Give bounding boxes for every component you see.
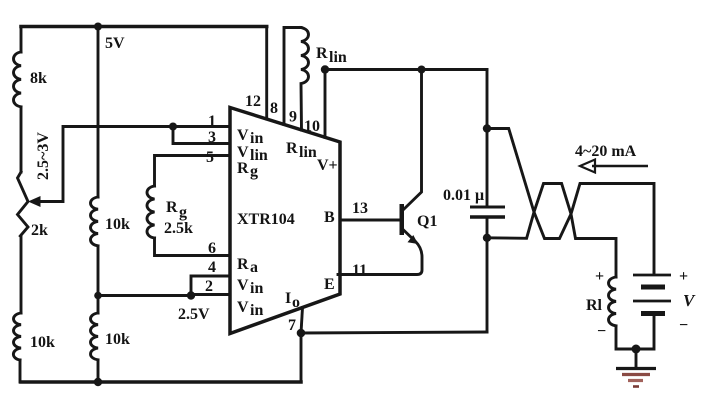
- resistor Rg 2.5k: [147, 186, 193, 238]
- wire pin 10 to Rlin node: [324, 70, 327, 138]
- svg-text:9: 9: [289, 109, 297, 126]
- pin 2 label Vin: [237, 299, 263, 319]
- node twist lower: [483, 234, 491, 242]
- arrow 4~20 mA: [575, 143, 648, 173]
- pin 6 label Ra: [237, 256, 258, 276]
- pin 3 label Vlin: [237, 144, 268, 164]
- resistor 10k middle-upper: [91, 197, 131, 246]
- svg-text:10k: 10k: [105, 331, 130, 348]
- wire top 5V rail: [21, 25, 267, 29]
- wire pin 4 branch: [191, 276, 229, 296]
- svg-text:2: 2: [205, 278, 213, 295]
- svg-text:R: R: [166, 199, 178, 216]
- wire pin 7 to right bus: [301, 332, 487, 333]
- pin 5 label Rg: [237, 160, 258, 180]
- wire pin 3 branch: [173, 127, 229, 144]
- svg-text:1: 1: [208, 113, 216, 130]
- svg-text:in: in: [250, 280, 263, 297]
- svg-text:E: E: [324, 276, 335, 293]
- wire right bus upper: [486, 70, 489, 208]
- svg-text:V: V: [237, 144, 249, 161]
- wire pin 5 to Rg: [155, 156, 230, 187]
- wire Rlin node to right bus: [325, 68, 487, 71]
- wire Rg to pin 6: [155, 238, 230, 256]
- svg-text:R: R: [237, 256, 249, 273]
- resistor coil pins 8-9: [301, 28, 309, 131]
- svg-text:lin: lin: [250, 147, 268, 164]
- wire twisted pair A: [487, 129, 654, 273]
- wire pin 7 stub: [301, 308, 303, 334]
- node pin1 junction: [169, 123, 177, 131]
- node pin 7: [297, 329, 306, 338]
- battery V: [633, 268, 696, 349]
- svg-text:10k: 10k: [105, 216, 130, 233]
- svg-text:V+: V+: [317, 157, 338, 174]
- svg-text:Rl: Rl: [586, 297, 603, 314]
- svg-text:8: 8: [270, 100, 278, 117]
- wire middle 5V vertical: [97, 27, 100, 383]
- transistor Q1: [338, 70, 437, 275]
- svg-text:g: g: [250, 163, 258, 180]
- wire pin 7 down to rail: [300, 333, 303, 382]
- svg-text:R: R: [286, 140, 298, 157]
- capacitor 0.01u: [443, 187, 505, 217]
- node 5V junction: [94, 23, 102, 31]
- svg-text:5V: 5V: [105, 35, 125, 52]
- svg-text:Q1: Q1: [417, 213, 437, 230]
- node twist upper: [483, 124, 491, 132]
- svg-text:2k: 2k: [31, 222, 48, 239]
- wire pin 8 up-over: [284, 28, 301, 125]
- svg-text:in: in: [250, 302, 263, 319]
- svg-text:13: 13: [352, 200, 368, 217]
- svg-text:−: −: [679, 317, 688, 334]
- resistor RL: [586, 268, 616, 340]
- wire bottom rail: [21, 380, 301, 384]
- svg-text:11: 11: [352, 262, 367, 279]
- svg-text:+: +: [595, 268, 604, 285]
- svg-text:lin: lin: [299, 144, 317, 161]
- svg-text:o: o: [292, 294, 300, 311]
- potentiometer 2k zigzag: [18, 172, 49, 239]
- resistor 10k left: [13, 313, 55, 360]
- svg-text:V: V: [237, 277, 249, 294]
- svg-text:R: R: [237, 160, 249, 177]
- node ground junction: [632, 345, 641, 354]
- svg-text:10k: 10k: [30, 334, 55, 351]
- pin 4 label Vin: [237, 277, 263, 297]
- svg-text:0.01 μ: 0.01 μ: [443, 187, 484, 204]
- svg-text:−: −: [597, 323, 606, 340]
- svg-text:4~20 mA: 4~20 mA: [575, 143, 637, 160]
- label Rlin inside: [286, 140, 317, 161]
- wire pin 12 vertical: [265, 27, 268, 120]
- svg-text:V: V: [683, 291, 696, 310]
- label Rlin top: [316, 45, 347, 66]
- svg-text:3: 3: [208, 129, 216, 146]
- wire left branch vertical: [20, 27, 21, 383]
- svg-text:4: 4: [208, 259, 216, 276]
- wire pin 2: [191, 293, 229, 296]
- ground: [616, 349, 656, 387]
- pin 1 label Vin: [237, 127, 263, 147]
- wire right bus lower: [486, 220, 489, 333]
- svg-text:6: 6: [208, 240, 216, 257]
- wire twisted pair B: [487, 184, 616, 278]
- op-amp U1 XTR104 body: [230, 108, 340, 334]
- svg-text:2.5~3V: 2.5~3V: [35, 132, 52, 180]
- resistor 8k: [14, 52, 48, 107]
- resistor 10k middle-lower: [91, 313, 131, 360]
- wire 2.5V horizontal: [98, 294, 191, 297]
- node Rlin: [321, 65, 329, 73]
- svg-text:B: B: [324, 209, 335, 226]
- svg-text:R: R: [316, 45, 328, 62]
- svg-text:8k: 8k: [30, 70, 47, 87]
- svg-text:a: a: [250, 259, 258, 276]
- svg-text:5: 5: [206, 149, 214, 166]
- svg-text:V: V: [237, 299, 249, 316]
- svg-text:V: V: [237, 127, 249, 144]
- svg-text:I: I: [285, 290, 291, 307]
- svg-text:g: g: [179, 204, 187, 221]
- svg-text:7: 7: [288, 317, 296, 334]
- potentiometer wiper arrow: [28, 196, 41, 207]
- svg-text:10: 10: [304, 118, 320, 135]
- node middle-bottom junction: [94, 378, 102, 386]
- node 2.5V pin junction: [187, 291, 195, 299]
- svg-text:XTR104: XTR104: [237, 211, 295, 228]
- svg-text:lin: lin: [329, 49, 347, 66]
- svg-text:+: +: [679, 268, 688, 285]
- svg-text:2.5V: 2.5V: [178, 306, 210, 323]
- svg-text:in: in: [250, 130, 263, 147]
- svg-text:12: 12: [245, 93, 261, 110]
- node 2.5V junction left: [94, 292, 102, 300]
- wire wiper to pin1: [39, 127, 229, 202]
- svg-text:2.5k: 2.5k: [164, 220, 193, 237]
- node collector tap: [418, 66, 426, 74]
- label Io: [285, 290, 300, 311]
- wire RL to ground node: [616, 326, 636, 349]
